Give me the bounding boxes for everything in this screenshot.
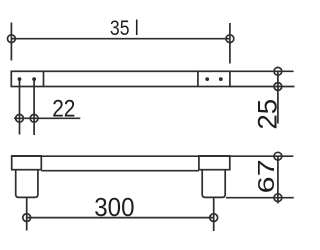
- bottom view right cap: [199, 156, 230, 170]
- dim 351 extension line left: [10, 23, 12, 61]
- bottom view left post: [16, 170, 38, 198]
- dim 22 extension line left: [19, 79, 21, 134]
- top view right cap divider: [197, 71, 199, 86]
- svg-text:35l: 35l: [110, 17, 139, 41]
- dim 351 terminator circle left: [7, 35, 15, 43]
- svg-text:67: 67: [253, 159, 278, 193]
- dim 22 dimension line: [14, 117, 80, 119]
- bottom view right post: [202, 170, 225, 198]
- dim 300 terminator circle left: [23, 214, 31, 222]
- dim 22 terminator circle right: [30, 114, 38, 122]
- top view left cap divider: [43, 71, 45, 86]
- dim 300 dimension line: [27, 217, 214, 219]
- top view bar outline: [11, 71, 230, 86]
- dim 22 terminator circle left: [16, 114, 24, 122]
- dim 67 terminator circle bottom: [274, 194, 282, 202]
- dim 300 extension line left: [26, 197, 28, 230]
- dim 67 extension line bottom: [226, 197, 294, 199]
- bottom view bar bottom edge: [41, 170, 199, 172]
- screw hole dot left cap 2: [32, 77, 36, 81]
- dim 25 extension line bottom: [230, 86, 295, 88]
- dim 67 terminator circle top: [274, 152, 282, 160]
- dim 351 extension line right: [229, 23, 231, 64]
- dim 67 dimension line: [277, 156, 279, 203]
- svg-text:300: 300: [94, 194, 134, 223]
- screw hole dot left cap 1: [18, 77, 22, 81]
- dim 25 terminator circle bottom: [274, 83, 282, 91]
- dim 25 terminator circle top: [274, 67, 282, 75]
- bottom view bar top edge with 67 extension: [12, 155, 294, 157]
- dim 25 extension line top: [230, 70, 294, 72]
- svg-text:22: 22: [52, 95, 75, 122]
- bottom view left cap: [12, 156, 42, 170]
- dim 22 extension line right: [33, 79, 35, 135]
- screw hole dot right cap 2: [219, 77, 223, 81]
- dim 351 dimension line: [11, 38, 230, 40]
- dim 300 extension line right: [213, 197, 215, 231]
- screw hole dot right cap 1: [205, 77, 209, 81]
- dim 300 terminator circle right: [210, 214, 218, 222]
- dim 25 dimension line: [277, 71, 279, 123]
- svg-text:25: 25: [253, 99, 282, 130]
- dim 351 terminator circle right: [226, 35, 234, 43]
